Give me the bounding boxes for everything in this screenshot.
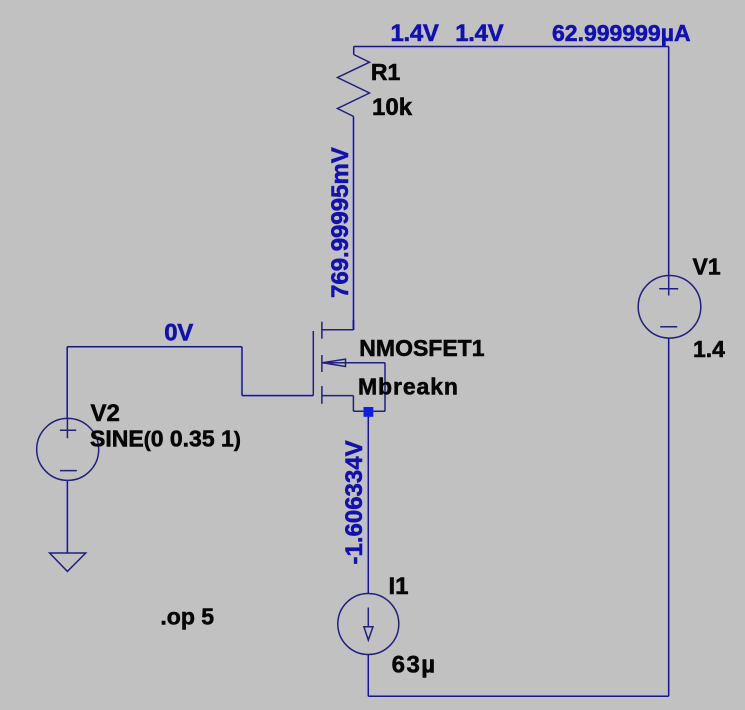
svg-text:Mbreakn: Mbreakn	[358, 373, 459, 399]
svg-text:1.4: 1.4	[693, 336, 725, 362]
svg-text:63µ: 63µ	[392, 651, 437, 678]
svg-text:1.4V: 1.4V	[455, 20, 503, 47]
svg-text:V1: V1	[693, 254, 721, 280]
svg-text:10k: 10k	[372, 94, 413, 121]
svg-text:0V: 0V	[164, 320, 193, 347]
svg-text:NMOSFET1: NMOSFET1	[359, 335, 484, 361]
svg-text:1.4V: 1.4V	[391, 20, 439, 47]
svg-text:62.999999µA: 62.999999µA	[552, 20, 691, 46]
svg-text:V2: V2	[91, 400, 120, 427]
svg-text:.op 5: .op 5	[160, 604, 214, 630]
svg-text:R1: R1	[371, 59, 401, 85]
svg-text:SINE(0 0.35 1): SINE(0 0.35 1)	[90, 426, 241, 452]
svg-text:-1.606334V: -1.606334V	[341, 440, 368, 564]
svg-text:769.99995mV: 769.99995mV	[327, 147, 354, 298]
svg-text:I1: I1	[389, 573, 409, 600]
